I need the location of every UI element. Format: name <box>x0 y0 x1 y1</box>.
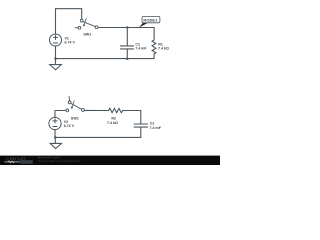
junction dot V2 bottom <box>54 136 57 139</box>
svg-text:7.4 mF: 7.4 mF <box>135 46 147 50</box>
label R1 value <box>158 42 169 50</box>
svg-text:NODE1: NODE1 <box>143 18 158 23</box>
label C1 value <box>135 43 147 51</box>
wire V2 top to SW2 <box>55 111 66 118</box>
resistor R2 <box>109 108 123 112</box>
wire R2 to C2 <box>123 111 141 124</box>
label SW1 <box>83 33 91 37</box>
wire bottom rail circuit 1 <box>56 58 155 60</box>
CircuitLab logo <box>5 156 33 164</box>
wire SW1 to node rail <box>98 27 154 29</box>
label V1 value <box>65 37 76 45</box>
wire bottom rail circuit 2 <box>55 136 141 138</box>
svg-text:Mohns00 / Lab 3: Mohns00 / Lab 3 <box>38 156 60 160</box>
svg-text:http://circuitlab.com/c2444dy2: http://circuitlab.com/c2444dy2oqx4r <box>38 159 80 163</box>
wire V2 bottom <box>54 130 56 138</box>
svg-text:7.4 kΩ: 7.4 kΩ <box>158 47 169 51</box>
capacitor C1 <box>120 28 133 59</box>
wire V1 bottom <box>55 46 57 59</box>
label V2 value <box>64 120 75 128</box>
node NODE1 callout <box>139 16 160 27</box>
svg-text:7.4 mF: 7.4 mF <box>150 126 162 130</box>
ground circuit 2 <box>50 137 61 148</box>
switch SW1 <box>75 19 98 30</box>
footer text <box>38 156 80 163</box>
ground circuit 1 <box>50 59 62 70</box>
junction dot node1/C1 top <box>126 26 129 29</box>
svg-text:SW1: SW1 <box>83 33 91 37</box>
capacitor C2 <box>134 124 147 137</box>
wire V1 top to SW1 <box>56 9 82 34</box>
footer bar <box>0 156 220 165</box>
label C2 value <box>150 122 162 130</box>
svg-text:6.74 V: 6.74 V <box>64 124 75 128</box>
label SW2 <box>71 117 79 121</box>
svg-text:R2: R2 <box>111 116 116 120</box>
label R2 value <box>107 116 118 125</box>
junction dot C1 bottom <box>126 57 129 60</box>
resistor R1 <box>152 28 156 59</box>
svg-text:LAB: LAB <box>22 160 30 164</box>
wire SW2 to R2 <box>84 109 108 111</box>
svg-text:7.4 kΩ: 7.4 kΩ <box>107 121 118 125</box>
voltage source V2 <box>49 117 61 129</box>
switch SW2 <box>66 96 85 111</box>
svg-text:C2: C2 <box>150 122 155 126</box>
voltage source V1 <box>50 34 62 46</box>
junction dot V1 bottom <box>54 57 57 60</box>
svg-text:6.74 V: 6.74 V <box>65 41 76 45</box>
svg-text:SW2: SW2 <box>71 117 79 121</box>
